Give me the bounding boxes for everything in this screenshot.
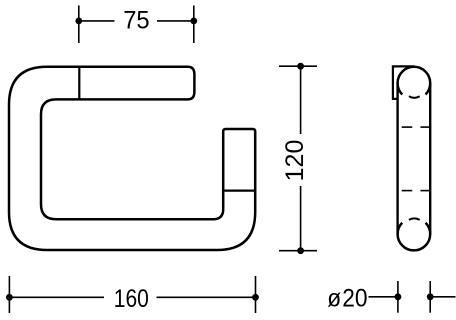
dimension o20: right leader line bbox=[430, 296, 455, 298]
holder bar right edge (side view) bbox=[429, 83, 431, 234]
dimension 75: right dot bbox=[190, 18, 197, 25]
bottom bend circle (side view) bbox=[398, 223, 431, 251]
dimension o20: left dot bbox=[395, 293, 402, 300]
dimension 160: left dot bbox=[6, 294, 13, 301]
joint tick on right stub bbox=[223, 190, 255, 192]
dimension 160: right extension line bbox=[255, 276, 257, 313]
hidden line lower (tube end, dashed) bbox=[402, 190, 413, 192]
dimension 120: top dot bbox=[297, 63, 304, 70]
joint tick on top bar bbox=[78, 67, 80, 100]
dimension 160: left extension line bbox=[8, 276, 10, 313]
dimension 120: line upper segment bbox=[300, 66, 302, 134]
dimension o20: right dot bbox=[427, 293, 434, 300]
dimension 120: line lower segment bbox=[300, 186, 302, 251]
dimension 160: line right segment bbox=[157, 296, 256, 298]
dimension 75: right extension line bbox=[193, 6, 195, 44]
svg-text:160: 160 bbox=[114, 284, 149, 312]
dimension 120: top tick bbox=[279, 65, 317, 67]
wall plate (side view) bbox=[393, 66, 415, 99]
svg-text:ø20: ø20 bbox=[327, 284, 367, 312]
dimension o20: left leader line bbox=[369, 296, 398, 298]
dimension 75: left extension line bbox=[78, 6, 80, 44]
dimension 120: bottom tick bbox=[279, 250, 317, 252]
dimension 75: left dot bbox=[75, 18, 82, 25]
dimension 75: line left segment bbox=[79, 20, 115, 22]
dimension 160: line left segment bbox=[9, 296, 104, 298]
roll holder tube outline (front view) bbox=[9, 67, 255, 250]
dimension o20: right extension line bbox=[429, 281, 431, 313]
top bend hidden arc (dashed) bbox=[409, 96, 420, 98]
top bend circle (side view) bbox=[398, 67, 431, 95]
dimension o20: left extension line bbox=[397, 281, 399, 313]
svg-text:75: 75 bbox=[123, 7, 149, 35]
hidden line upper (tube end, dashed) bbox=[402, 126, 413, 128]
holder bar left edge (side view) bbox=[396, 83, 398, 234]
dimension 120: bottom dot bbox=[297, 247, 304, 254]
svg-text:120: 120 bbox=[281, 140, 309, 182]
bottom bend hidden arc (dashed) bbox=[409, 218, 420, 220]
dimension 75: line right segment bbox=[157, 20, 194, 22]
dimension 160: right dot bbox=[252, 294, 259, 301]
